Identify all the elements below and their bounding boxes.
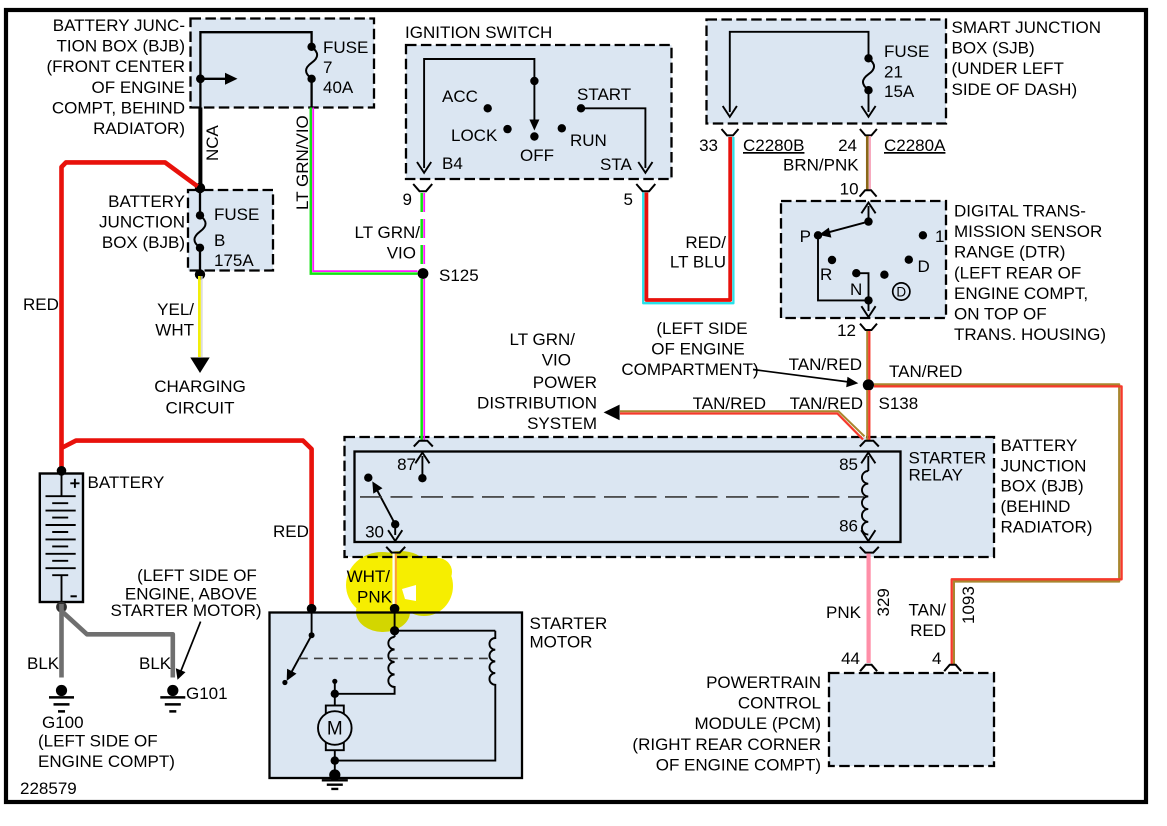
starter motor M1 enclosure (270, 613, 523, 779)
wire SJB internal bus (730, 32, 869, 112)
svg-text:(UNDER LEFT: (UNDER LEFT (952, 59, 1064, 78)
svg-text:S138: S138 (879, 394, 919, 413)
svg-text:9: 9 (403, 190, 412, 209)
terminal arrow SJB-24 (861, 106, 875, 117)
svg-text:M: M (327, 719, 343, 740)
wire YEL/WHT (201, 276, 203, 357)
svg-text:P: P (800, 227, 811, 246)
svg-text:(LEFT SIDE OF: (LEFT SIDE OF (38, 732, 158, 751)
arrow to charging circuit (190, 358, 209, 374)
highlighter mark over WHT/PNK wire (346, 551, 453, 632)
arrow to power distribution system (604, 405, 620, 421)
svg-text:DISTRIBUTION: DISTRIBUTION (477, 394, 597, 413)
svg-text:(BEHIND: (BEHIND (1001, 497, 1071, 516)
wire NCA (198, 108, 202, 185)
svg-text:VIO: VIO (387, 244, 416, 263)
wire TAN/RED S138 to relay 85 (866, 390, 868, 440)
connector PCM pin 44 (860, 665, 877, 671)
svg-text:33: 33 (699, 136, 718, 155)
battery junction box BJB fuse-B enclosure (188, 190, 273, 271)
wire red battery feed (62, 162, 198, 468)
contact R (828, 256, 836, 264)
svg-text:5: 5 (624, 190, 633, 209)
svg-text:TION BOX (BJB): TION BOX (BJB) (57, 37, 185, 56)
wire LT GRN/VIO ignition-9 to S125 (dashed) (420, 193, 423, 266)
contact LOCK (503, 125, 511, 133)
DTR wiper pivot dot (864, 217, 872, 225)
contact D (905, 256, 913, 264)
terminal arrow STA (638, 162, 652, 173)
starter solenoid pull-in coil (338, 637, 395, 694)
battery minus sign (71, 595, 77, 597)
svg-text:IGNITION SWITCH: IGNITION SWITCH (405, 23, 552, 42)
svg-text:RADIATOR): RADIATOR) (93, 119, 185, 138)
connector pin 12 (860, 324, 877, 330)
svg-text:WHT/: WHT/ (347, 567, 391, 586)
svg-text:30: 30 (365, 523, 384, 542)
switch wiper pivot dot (530, 77, 538, 85)
contact START (577, 104, 585, 112)
svg-text:TAN/RED: TAN/RED (889, 362, 962, 381)
terminal arrow DTR-12 (868, 300, 870, 311)
connector relay pin 30 (386, 547, 405, 553)
svg-text:TAN/RED: TAN/RED (693, 394, 766, 413)
motor M1 armature (326, 706, 344, 751)
svg-text:D: D (896, 285, 906, 300)
starter hold-in coil branch (395, 630, 496, 632)
svg-text:JUNCTION: JUNCTION (99, 213, 185, 232)
starter switch contact dot (311, 609, 313, 636)
battery junction box BJB fuse-7 enclosure (191, 19, 375, 108)
svg-text:COMPT, BEHIND: COMPT, BEHIND (52, 98, 185, 117)
svg-text:85: 85 (839, 455, 858, 474)
svg-text:BATTERY: BATTERY (1001, 436, 1078, 455)
svg-text:(LEFT SIDE: (LEFT SIDE (656, 319, 747, 338)
fuse FB element (194, 215, 205, 247)
svg-text:PNK: PNK (826, 603, 862, 622)
svg-text:JUNCTION: JUNCTION (1001, 456, 1087, 475)
wire RED/LT BLU ignition-5 to SJB-33 (643, 137, 733, 303)
svg-text:SMART JUNCTION: SMART JUNCTION (952, 18, 1102, 37)
svg-text:N: N (850, 280, 862, 299)
terminal arrow B4 (417, 162, 431, 173)
svg-text:SIDE OF DASH): SIDE OF DASH) (952, 80, 1078, 99)
svg-text:(LEFT REAR OF: (LEFT REAR OF (954, 263, 1081, 282)
ground G101 (167, 685, 178, 696)
svg-text:DIGITAL TRANS-: DIGITAL TRANS- (954, 202, 1086, 221)
starter mechanical dashed link (299, 657, 493, 659)
svg-text:CONTROL: CONTROL (738, 694, 821, 713)
battery plus sign (70, 479, 79, 488)
svg-text:MOTOR: MOTOR (530, 633, 593, 652)
svg-text:(RIGHT REAR CORNER: (RIGHT REAR CORNER (632, 735, 821, 754)
svg-text:LT GRN/: LT GRN/ (355, 223, 421, 242)
node starter solenoid terminal (390, 604, 400, 614)
svg-text:BATTERY: BATTERY (108, 192, 185, 211)
connector relay pin 85 (860, 441, 879, 447)
svg-text:4: 4 (932, 649, 941, 668)
connector pin 10 (860, 190, 877, 196)
contact between N and D (880, 271, 888, 279)
svg-text:LT GRN/VIO: LT GRN/VIO (293, 115, 312, 210)
svg-text:7: 7 (323, 58, 332, 77)
contact RUN (558, 124, 566, 132)
node relay 87 (418, 474, 426, 482)
svg-text:B4: B4 (442, 154, 463, 173)
svg-text:86: 86 (839, 517, 858, 536)
svg-text:TRANS. HOUSING): TRANS. HOUSING) (954, 325, 1106, 344)
relay contact arrow 87 (421, 456, 423, 478)
svg-text:(FRONT CENTER: (FRONT CENTER (46, 57, 185, 76)
svg-text:PNK: PNK (357, 588, 393, 607)
wire TAN/RED DTR-12 to S138 (866, 331, 868, 380)
svg-text:BOX (BJB): BOX (BJB) (1001, 477, 1084, 496)
node motor output (334, 750, 336, 772)
svg-text:BATTERY: BATTERY (88, 473, 165, 492)
svg-text:BOX (SJB): BOX (SJB) (952, 39, 1035, 58)
arrow note to S138 (753, 370, 849, 383)
svg-text:COMPARTMENT): COMPARTMENT) (621, 360, 758, 379)
svg-text:21: 21 (884, 63, 903, 82)
svg-text:40A: 40A (323, 78, 354, 97)
svg-text:RED/: RED/ (685, 233, 726, 252)
connector relay pin 87 (414, 441, 433, 447)
wire PNK relay 86 to PCM 44 (866, 554, 870, 664)
svg-text:START: START (577, 85, 631, 104)
svg-text:STARTER MOTOR): STARTER MOTOR) (110, 601, 261, 620)
svg-text:BLK: BLK (27, 654, 60, 673)
wire LT GRN/VIO fuse7 to S125 (313, 108, 417, 272)
wire fuse B vertical (199, 190, 201, 272)
switch wiper arrow to OFF (533, 81, 535, 121)
battery junction box BJB starter-relay enclosure (345, 437, 995, 557)
svg-text:RED: RED (910, 621, 946, 640)
wire BLK battery to G101 (62, 611, 173, 678)
wire DTR P to output (818, 235, 866, 300)
node S125 (418, 268, 429, 279)
svg-text:TAN/: TAN/ (909, 601, 947, 620)
svg-text:175A: 175A (214, 251, 254, 270)
svg-text:CIRCUIT: CIRCUIT (166, 399, 235, 418)
node battery negative terminal (56, 602, 67, 613)
node starter case ground (329, 769, 340, 780)
wire TAN/RED to power distribution system (620, 411, 865, 436)
relay coil terminal arrow 85 (867, 456, 869, 471)
battery BAT box (40, 474, 83, 603)
svg-text:R: R (820, 265, 832, 284)
svg-text:228579: 228579 (20, 779, 77, 798)
wire ignition B4 branch (424, 59, 534, 168)
svg-text:ENGINE COMPT): ENGINE COMPT) (38, 752, 175, 771)
wire BJB1 internal bus (200, 32, 311, 107)
svg-text:10: 10 (840, 180, 859, 199)
DTR wiper feed arrow (to pin 10) (868, 206, 870, 222)
digital transmission range sensor DTR enclosure (781, 201, 946, 318)
ignition switch enclosure (406, 45, 672, 179)
svg-text:FUSE: FUSE (214, 205, 259, 224)
smart junction box SJB enclosure (707, 20, 947, 124)
wire BRN/PNK SJB-24 to DTR-10 (866, 136, 869, 190)
svg-text:D: D (918, 257, 930, 276)
svg-text:1: 1 (935, 227, 944, 246)
svg-text:RELAY: RELAY (909, 466, 964, 485)
svg-text:G101: G101 (186, 684, 228, 703)
svg-text:POWERTRAIN: POWERTRAIN (706, 673, 821, 692)
svg-text:G100: G100 (42, 713, 84, 732)
svg-text:BLK: BLK (139, 654, 172, 673)
node battery positive terminal (57, 466, 67, 476)
wire TAN/RED S138 to PCM-4 (874, 384, 1119, 664)
starter relay K1 inner box (355, 452, 901, 543)
svg-text:POWER: POWER (533, 373, 597, 392)
svg-text:CHARGING: CHARGING (154, 377, 246, 396)
svg-text:YEL/: YEL/ (157, 300, 194, 319)
svg-text:TAN/RED: TAN/RED (790, 394, 863, 413)
svg-text:RADIATOR): RADIATOR) (1001, 517, 1093, 536)
contact 1 (919, 231, 927, 239)
svg-text:1093: 1093 (959, 586, 978, 624)
starter switch lower contact dot (332, 679, 337, 684)
svg-text:STARTER: STARTER (530, 614, 608, 633)
svg-text:44: 44 (841, 649, 860, 668)
svg-text:BOX (BJB): BOX (BJB) (102, 233, 185, 252)
node junction NCA / RED / fuse B (195, 183, 205, 193)
svg-text:LOCK: LOCK (451, 126, 498, 145)
relay terminal arrow 30 (394, 524, 396, 535)
powertrain control module PCM enclosure (829, 673, 994, 766)
svg-text:RANGE (DTR): RANGE (DTR) (954, 243, 1065, 262)
node relay 30 (391, 520, 399, 528)
svg-text:OF ENGINE: OF ENGINE (651, 340, 745, 359)
svg-text:WHT: WHT (155, 321, 194, 340)
svg-text:S125: S125 (439, 266, 479, 285)
svg-text:ACC: ACC (442, 87, 478, 106)
svg-text:ENGINE COMPT,: ENGINE COMPT, (954, 284, 1088, 303)
contact OFF (530, 132, 538, 140)
connector relay pin 86 (860, 547, 879, 553)
svg-text:OF ENGINE COMPT): OF ENGINE COMPT) (656, 755, 821, 774)
ground starter motor case (322, 780, 348, 789)
svg-text:15A: 15A (884, 82, 915, 101)
svg-text:ON TOP OF: ON TOP OF (954, 305, 1047, 324)
svg-text:RUN: RUN (570, 131, 607, 150)
connector pin 24 (860, 129, 877, 135)
svg-text:NCA: NCA (203, 124, 222, 161)
connector PCM pin 4 (944, 665, 961, 671)
node DTR output junction (864, 296, 872, 304)
arrow note to G101 (181, 622, 201, 672)
svg-text:MODULE (PCM): MODULE (PCM) (694, 714, 821, 733)
fuse F7 element (306, 47, 317, 79)
svg-text:C2280B: C2280B (743, 136, 804, 155)
svg-text:(LEFT SIDE OF: (LEFT SIDE OF (137, 566, 257, 585)
svg-text:C2280A: C2280A (884, 136, 946, 155)
wire red battery to starter motor (62, 441, 312, 606)
wire ignition STA branch (581, 108, 645, 168)
DTR wiper arrow to P (828, 222, 869, 233)
svg-text:VIO: VIO (542, 351, 571, 370)
wire WHT/PNK relay 30 to starter motor (392, 554, 394, 607)
relay coil (862, 471, 868, 535)
svg-text:LT BLU: LT BLU (670, 253, 726, 272)
node coil to motor junction (331, 690, 339, 698)
wire BLK battery to G100 (59, 604, 64, 678)
contact N (852, 269, 860, 277)
wire LT GRN/VIO S125 to relay 87 (420, 279, 423, 440)
contact P (814, 231, 822, 239)
connector pin 9 (413, 184, 432, 191)
svg-text:TAN/RED: TAN/RED (789, 355, 862, 374)
relay coil terminal arrow 86 (861, 530, 875, 541)
relay movable contact (364, 474, 372, 482)
wire DTR N to output (856, 273, 868, 298)
starter switch arm arrow (291, 635, 312, 673)
ground G100 (56, 685, 67, 696)
svg-text:B: B (214, 231, 225, 250)
svg-text:OF ENGINE: OF ENGINE (91, 78, 185, 97)
svg-text:FUSE: FUSE (884, 42, 929, 61)
node starter solenoid input (red) (307, 604, 317, 614)
svg-text:FUSE: FUSE (323, 38, 368, 57)
circled D (drive) (893, 283, 910, 300)
svg-text:BATTERY JUNC-: BATTERY JUNC- (53, 16, 185, 35)
svg-text:87: 87 (397, 455, 416, 474)
battery cell plates (46, 475, 76, 601)
node S138 (863, 379, 874, 390)
svg-text:LT GRN/: LT GRN/ (510, 330, 576, 349)
relay internal dashed line (360, 496, 864, 498)
svg-text:SYSTEM: SYSTEM (527, 414, 597, 433)
svg-text:STA: STA (600, 155, 632, 174)
svg-text:24: 24 (838, 136, 857, 155)
node tap with right arrow inside BJB1 (196, 74, 205, 83)
svg-text:OFF: OFF (520, 146, 554, 165)
svg-text:RED: RED (273, 522, 309, 541)
svg-text:12: 12 (837, 321, 856, 340)
connector pin 33 (722, 129, 739, 135)
svg-text:BRN/PNK: BRN/PNK (783, 156, 859, 175)
terminal arrow SJB-33 (723, 106, 737, 117)
svg-text:MISSION SENSOR: MISSION SENSOR (954, 222, 1102, 241)
connector pin 5 (636, 184, 655, 191)
svg-text:329: 329 (874, 588, 893, 616)
node below fuse B box (195, 269, 205, 279)
contact ACC (484, 104, 492, 112)
svg-text:RED: RED (23, 295, 59, 314)
fuse F21 element (863, 58, 874, 90)
